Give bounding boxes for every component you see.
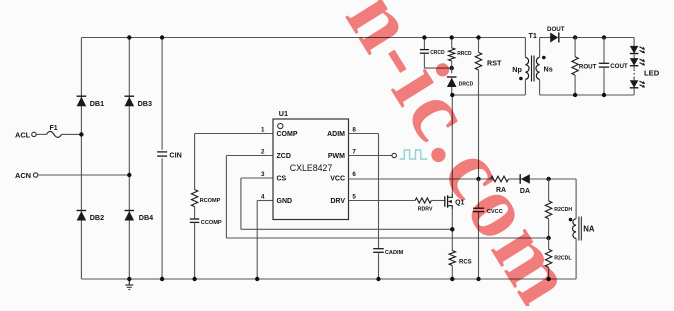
resistor R2CDL (545, 238, 572, 279)
wire top rail corner to Np (524, 38, 526, 58)
junction output bottom / ROUT (573, 93, 577, 97)
junction bottom rail / GND pin (255, 277, 259, 281)
junction RRCD/CRCD/DRCD (450, 66, 454, 70)
svg-text:Np: Np (512, 65, 522, 74)
wire top rail (bridge output + to snubber and T1 primary) (81, 37, 525, 39)
svg-text:F1: F1 (50, 125, 58, 132)
pin 5 DRV (330, 194, 356, 206)
junction VCC line / R2CDH (546, 177, 550, 181)
svg-text:RCS: RCS (459, 260, 472, 266)
value CXLE8427 (290, 163, 333, 173)
inductor NA auxiliary winding (569, 217, 595, 241)
node ACL input terminal (15, 130, 36, 139)
svg-text:PWM: PWM (328, 153, 345, 160)
svg-text:NA: NA (583, 225, 595, 234)
svg-text:8: 8 (352, 127, 356, 134)
svg-text:CS: CS (277, 176, 287, 183)
resistor RCS (449, 251, 472, 280)
pin 7 PWM (328, 149, 357, 161)
junction ACN/DB3/DB4 (127, 173, 131, 177)
wire fuse to bridge node (62, 133, 82, 135)
svg-text:RCOMP: RCOMP (200, 198, 221, 204)
svg-text:GND: GND (277, 198, 293, 205)
junction ZCD divider node (546, 236, 550, 240)
pin 6 VCC (330, 171, 356, 183)
svg-text:CXLE8427: CXLE8427 (290, 163, 333, 173)
svg-text:T1: T1 (529, 31, 537, 40)
wire DB1/DB2 column (80, 38, 82, 280)
junction CS sense node (450, 227, 454, 231)
junction bottom rail / CCOMP (192, 277, 196, 281)
junction bottom rail / ground (127, 277, 131, 281)
wire PWM pin7 to terminal (349, 155, 393, 157)
value LED label (644, 69, 660, 78)
svg-text:5: 5 (352, 194, 356, 201)
wire LED column (633, 38, 635, 96)
wire T1 primary bottom to Q1 drain (452, 95, 525, 194)
wire CIN column (161, 38, 163, 280)
svg-text:CCOMP: CCOMP (201, 220, 222, 226)
pin 3 CS (261, 171, 287, 183)
svg-text:U1: U1 (279, 109, 288, 118)
svg-text:DB2: DB2 (90, 213, 104, 222)
junction top rail / DB3 (127, 35, 131, 39)
wire DOUT to LED column (559, 37, 634, 39)
pin 1 COMP (261, 127, 298, 139)
junction bottom rail / CIN (160, 277, 164, 281)
svg-text:ACN: ACN (15, 171, 31, 180)
wire CS pin3 loop (241, 178, 452, 229)
node PWM open terminal (392, 153, 396, 157)
wire ZCD pin2 loop (226, 156, 548, 239)
PWM waveform symbol (400, 150, 428, 159)
svg-text:3: 3 (261, 171, 265, 178)
wire RCOMP to CCOMP (194, 207, 196, 219)
junction output top / ROUT (573, 35, 577, 39)
diode LED3 (630, 80, 645, 88)
resistor RDRV (415, 198, 433, 213)
resistor ROUT (572, 38, 597, 96)
node ACN input terminal (15, 171, 38, 180)
svg-text:CIN: CIN (169, 151, 181, 160)
wire DA to R2CDH node (530, 178, 549, 180)
wire RDRV to Q1 gate (431, 200, 444, 202)
junction top rail / RST (476, 35, 480, 39)
capacitor CRCD (420, 38, 445, 69)
svg-text:4: 4 (261, 194, 265, 201)
svg-text:ZCD: ZCD (277, 153, 291, 160)
junction drain node / DRCD (450, 93, 454, 97)
transformer T1 label (529, 31, 537, 40)
svg-text:ADIM: ADIM (327, 131, 345, 138)
junction bottom rail / CVCC (476, 277, 480, 281)
diode DB1 (77, 96, 104, 108)
svg-text:Ns: Ns (544, 65, 553, 74)
wire DB3/DB4 column (128, 38, 130, 280)
dotted more-LEDs indicator (633, 70, 635, 79)
decorative watermark (not labelled as circuit element) (327, 0, 596, 311)
diode DRCD (447, 68, 474, 87)
svg-text:DOUT: DOUT (547, 26, 565, 33)
svg-text:1: 1 (261, 127, 265, 134)
wire ADIM pin8 to CADIM column (349, 134, 379, 249)
diode LED1 (630, 46, 645, 54)
capacitor CIN (157, 151, 182, 160)
svg-text:2: 2 (261, 149, 265, 156)
svg-text:DB3: DB3 (138, 99, 152, 108)
svg-text:ROUT: ROUT (579, 64, 597, 71)
wire DRV pin5 to RDRV (349, 200, 416, 202)
diode DB4 (125, 211, 154, 223)
svg-text:RDRV: RDRV (418, 207, 433, 213)
svg-text:LED: LED (644, 69, 660, 78)
svg-text:7: 7 (352, 149, 356, 156)
wire CCOMP to ground rail (194, 222, 196, 279)
fuse F1 (47, 125, 62, 138)
wire bottom ground rail (81, 278, 576, 280)
junction ACL/DB1/DB2 (79, 132, 83, 136)
capacitor COUT (599, 38, 628, 96)
junction top rail / CRCD (422, 35, 426, 39)
resistor RCOMP (191, 190, 220, 207)
capacitor CVCC (473, 179, 503, 279)
svg-text:VCC: VCC (330, 176, 345, 183)
svg-text:ACL: ACL (15, 130, 31, 139)
wire ACN to bridge node (38, 174, 130, 176)
diode DB2 (77, 211, 104, 223)
junction top rail / CIN (160, 35, 164, 39)
wire CRCD bottom to RRCD bottom (424, 67, 451, 69)
inductor Ns secondary winding (536, 56, 553, 80)
diode DB3 (125, 96, 152, 108)
capacitor CCOMP (190, 219, 222, 226)
junction bottom rail / RCS (450, 277, 454, 281)
inductor Np primary winding (512, 57, 529, 80)
junction output bottom / COUT (602, 93, 606, 97)
wire GND pin4 to ground rail (257, 201, 273, 280)
resistor RRCD (449, 38, 473, 69)
diode DA (520, 174, 530, 195)
diode LED2 (630, 58, 645, 66)
wire VCC pin6 to RA and NA column (349, 179, 577, 219)
capacitor CADIM (373, 249, 403, 257)
svg-text:RST: RST (487, 59, 502, 68)
wire Q1 source to CS node (451, 209, 453, 251)
svg-text:COUT: COUT (610, 63, 628, 70)
resistor R2CDH (545, 179, 572, 238)
wire CADIM to ground rail (378, 252, 380, 279)
wire NA bottom to ground rail (575, 238, 577, 279)
resistor RA (491, 176, 509, 194)
junction bottom rail / CADIM (376, 277, 380, 281)
wire ACL to fuse (36, 133, 46, 135)
svg-text:DB4: DB4 (139, 213, 153, 222)
junction VCC line / RST / CVCC (476, 177, 480, 181)
pin 8 ADIM (327, 127, 356, 139)
pin 4 GND (261, 194, 292, 206)
op-amp U1 CXLE8427 controller box (273, 109, 349, 220)
junction top rail / RRCD (450, 35, 454, 39)
transistor Q1 (445, 194, 465, 209)
svg-text:CADIM: CADIM (385, 250, 404, 256)
ground symbol (125, 279, 133, 290)
wire RA to DA (509, 178, 521, 180)
resistor RST (475, 38, 502, 180)
transformer core (532, 56, 535, 82)
wire COMP pin1 loop (195, 134, 273, 190)
svg-text:6: 6 (352, 171, 356, 178)
pin 2 ZCD (261, 149, 291, 161)
wire DRCD anode to drain node (451, 87, 453, 95)
junction output top / COUT (602, 35, 606, 39)
wire Np bottom to drain wire (524, 79, 526, 95)
diode DOUT (547, 26, 565, 43)
svg-text:DB1: DB1 (90, 99, 104, 108)
wire Ns top to DOUT (540, 38, 551, 58)
svg-text:COMP: COMP (277, 131, 298, 138)
junction bottom rail / R2CDL (546, 277, 550, 281)
svg-text:DRV: DRV (330, 198, 345, 205)
wire Ns bottom to output bottom (540, 79, 635, 95)
